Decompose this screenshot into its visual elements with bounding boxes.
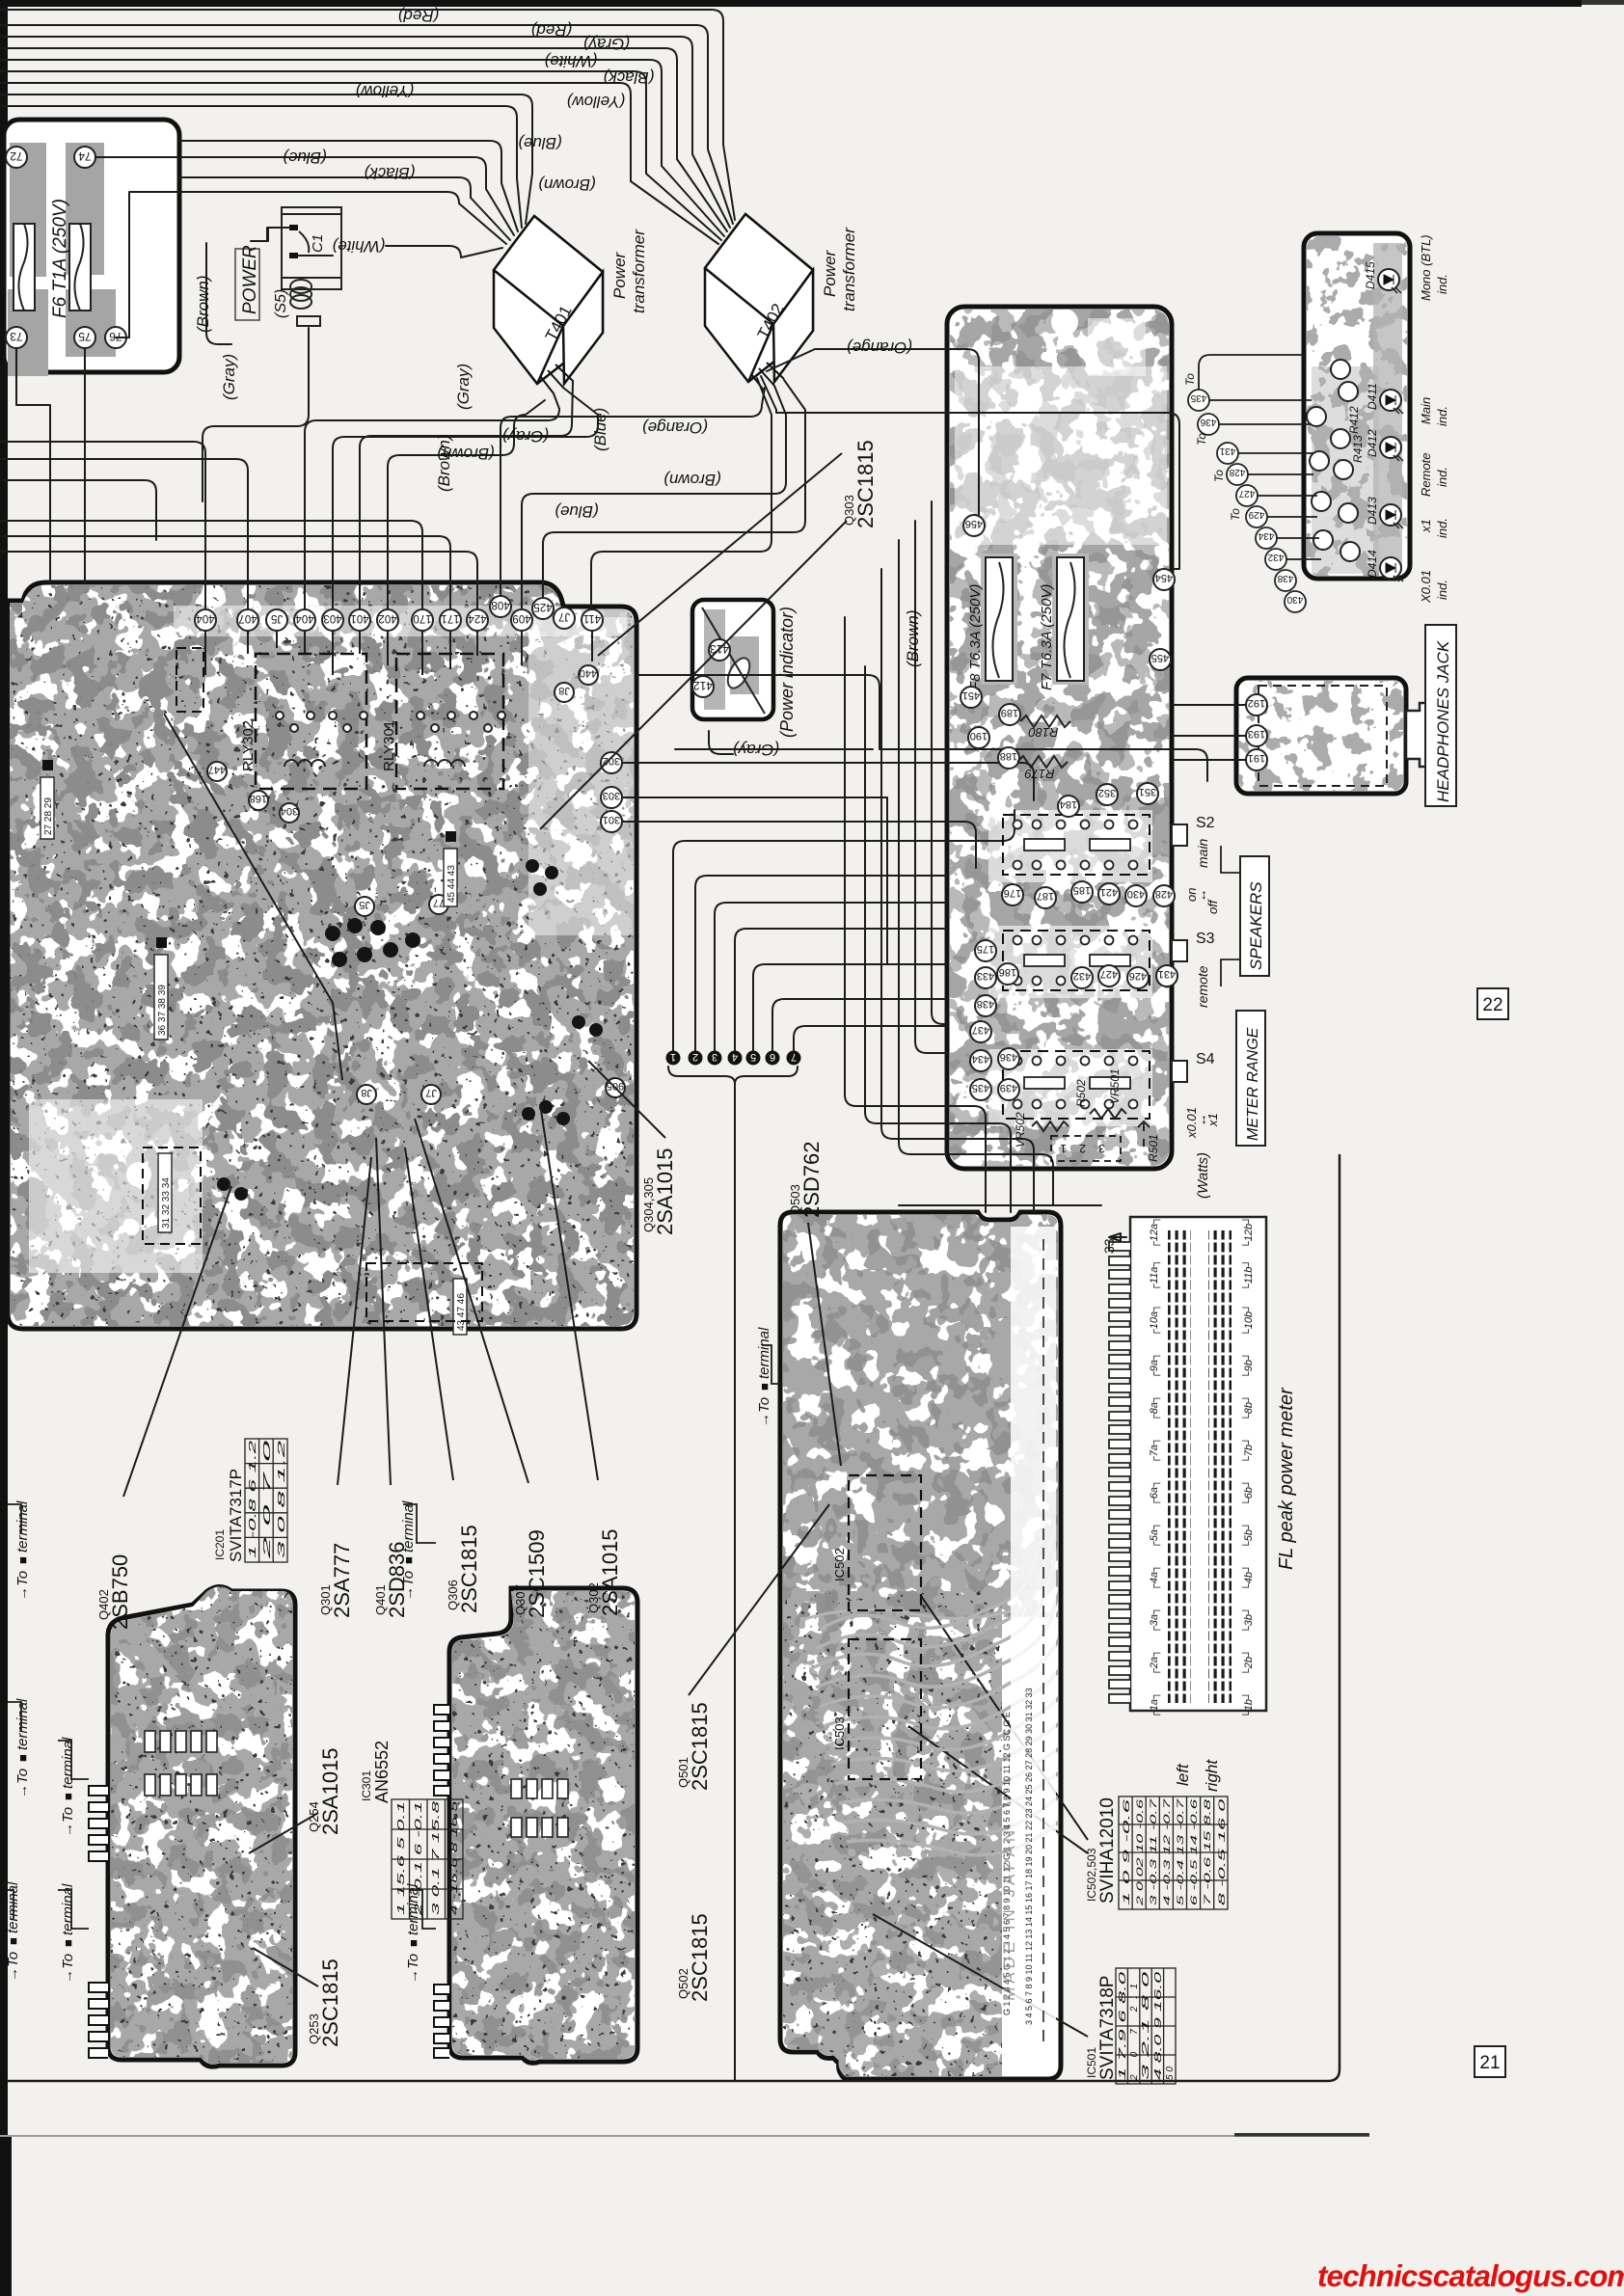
svg-text:terminal: terminal bbox=[400, 1500, 417, 1553]
svg-text:352: 352 bbox=[1098, 787, 1116, 798]
svg-text:x1: x1 bbox=[1419, 519, 1433, 533]
svg-text:2SC1815: 2SC1815 bbox=[457, 1525, 481, 1613]
svg-text:427: 427 bbox=[1238, 488, 1255, 499]
svg-text:└6b┘: └6b┘ bbox=[1241, 1479, 1255, 1506]
svg-text:73: 73 bbox=[10, 330, 23, 343]
svg-text:SPEAKERS: SPEAKERS bbox=[1247, 881, 1265, 970]
svg-text:434: 434 bbox=[972, 1053, 989, 1065]
svg-text:■: ■ bbox=[401, 1556, 416, 1564]
page edge (top) bbox=[0, 0, 1582, 7]
svg-text:190: 190 bbox=[970, 730, 988, 742]
svg-text:AN6552: AN6552 bbox=[372, 1741, 392, 1803]
jack connector at right bbox=[1406, 703, 1431, 767]
connector J101 bbox=[1051, 1136, 1121, 1161]
svg-text:RLY301: RLY301 bbox=[381, 720, 397, 771]
svg-text:(Brown): (Brown) bbox=[435, 434, 453, 492]
wire (Orange) T402 to pin 456 bbox=[767, 349, 979, 515]
svg-text:┌11a┐: ┌11a┐ bbox=[1149, 1259, 1161, 1291]
svg-text:2SA777: 2SA777 bbox=[330, 1543, 354, 1618]
svg-text:6: 6 bbox=[770, 1051, 775, 1063]
svg-text:3 -0.3 11 -0.7: 3 -0.3 11 -0.7 bbox=[1149, 1797, 1158, 1905]
transformer T401 bbox=[494, 216, 603, 384]
wire colour labels bbox=[283, 7, 912, 759]
wires to headphones jack pins 191-193 bbox=[1172, 705, 1246, 760]
svg-text:175: 175 bbox=[977, 943, 994, 955]
wire (White) C1 to T401 bbox=[298, 246, 502, 257]
svg-text:2 0.02 10 -0.6: 2 0.02 10 -0.6 bbox=[1135, 1799, 1145, 1907]
power indicator board with lamp bbox=[692, 600, 797, 738]
svg-text:(Gray): (Gray) bbox=[454, 364, 473, 410]
fuse F6 bbox=[14, 224, 35, 311]
switches S2 S3 S4 outlines bbox=[1003, 815, 1150, 1119]
LED indicator board bbox=[1304, 233, 1410, 579]
vertical wire labels bbox=[194, 275, 922, 667]
svg-text:terminal: terminal bbox=[756, 1327, 772, 1379]
svg-text:IC201: IC201 bbox=[213, 1529, 227, 1560]
svg-text:3: 3 bbox=[712, 1051, 717, 1063]
To-pin references 427-438 bbox=[1188, 390, 1306, 612]
page number 22 bbox=[1477, 988, 1508, 1019]
svg-text:(White): (White) bbox=[545, 52, 598, 70]
svg-text:└3b┘: └3b┘ bbox=[1241, 1607, 1255, 1634]
FL meter segments bbox=[1168, 1230, 1191, 1703]
svg-text:188: 188 bbox=[1000, 750, 1017, 762]
svg-text:33: 33 bbox=[1101, 1238, 1117, 1254]
svg-text:3 0.1 7 15.8: 3 0.1 7 15.8 bbox=[430, 1801, 442, 1915]
traces to FL connector bbox=[812, 1524, 1167, 1855]
svg-text:→To: →To bbox=[60, 1807, 76, 1837]
svg-text:To: To bbox=[1229, 508, 1242, 521]
svg-text:FL peak power meter: FL peak power meter bbox=[1276, 1387, 1297, 1570]
svg-text:184: 184 bbox=[1060, 798, 1077, 810]
svg-text:→To: →To bbox=[5, 1952, 21, 1982]
svg-text:F8 T6.3A (250V): F8 T6.3A (250V) bbox=[967, 584, 984, 690]
svg-text:3 0 8 1.2: 3 0 8 1.2 bbox=[277, 1440, 287, 1558]
svg-text:402: 402 bbox=[378, 612, 396, 624]
wire stubs below pins bbox=[205, 631, 592, 675]
wires from nodes 1-7 bbox=[673, 810, 1015, 1051]
svg-text:1 0 9 -0.6: 1 0 9 -0.6 bbox=[1122, 1799, 1131, 1905]
svg-text:430: 430 bbox=[1286, 594, 1303, 605]
svg-text:x0.01: x0.01 bbox=[1184, 1107, 1199, 1139]
svg-text:■: ■ bbox=[406, 1939, 420, 1947]
svg-text:(S5): (S5) bbox=[273, 289, 289, 318]
fuse (second) bbox=[69, 224, 91, 311]
svg-text:304: 304 bbox=[281, 805, 298, 817]
svg-text:(Blue): (Blue) bbox=[555, 502, 598, 521]
svg-text:J5: J5 bbox=[359, 899, 370, 910]
svg-text:MADE IN JAPAN: MADE IN JAPAN bbox=[1000, 1826, 1018, 2001]
svg-text:ind.: ind. bbox=[1435, 467, 1449, 487]
svg-text:427: 427 bbox=[1100, 968, 1118, 980]
svg-text:4 -0.3 12 -0.7: 4 -0.3 12 -0.7 bbox=[1162, 1797, 1172, 1905]
svg-text:74: 74 bbox=[78, 149, 92, 163]
svg-text:R179: R179 bbox=[1024, 767, 1054, 781]
svg-text:412: 412 bbox=[693, 679, 713, 692]
svg-text:└9b┘: └9b┘ bbox=[1241, 1352, 1255, 1379]
svg-text:439: 439 bbox=[1000, 1082, 1017, 1094]
svg-text:2: 2 bbox=[1079, 1142, 1086, 1155]
svg-text:2 0 7 0: 2 0 7 0 bbox=[262, 1439, 273, 1562]
svg-text:ind.: ind. bbox=[1435, 580, 1449, 600]
FL peak power meter display bbox=[1109, 1217, 1266, 1711]
svg-text:(Yellow): (Yellow) bbox=[356, 82, 414, 100]
svg-text:403: 403 bbox=[323, 612, 341, 624]
svg-text:7: 7 bbox=[791, 1051, 797, 1063]
svg-text:421: 421 bbox=[1100, 886, 1118, 898]
svg-text:424: 424 bbox=[468, 612, 487, 624]
svg-text:437: 437 bbox=[972, 1024, 989, 1036]
svg-text:R501: R501 bbox=[1147, 1134, 1160, 1162]
svg-text:terminal: terminal bbox=[60, 1883, 76, 1935]
svg-text:2SC1815: 2SC1815 bbox=[688, 1913, 712, 2002]
svg-text:(Brown): (Brown) bbox=[904, 609, 922, 667]
svg-text:■: ■ bbox=[6, 1937, 20, 1945]
svg-text:└1b┘: └1b┘ bbox=[1241, 1691, 1255, 1718]
svg-text:Power: Power bbox=[821, 249, 839, 297]
svg-text:F7 T6.3A (250V): F7 T6.3A (250V) bbox=[1039, 584, 1055, 690]
svg-text:5 0: 5 0 bbox=[1165, 2066, 1176, 2080]
svg-text:ind.: ind. bbox=[1435, 274, 1449, 294]
svg-text:8 -0.5 16 0: 8 -0.5 16 0 bbox=[1217, 1799, 1227, 1905]
segment labels 1a-12a bbox=[1149, 1216, 1161, 1718]
svg-text:IC501: IC501 bbox=[1085, 2047, 1098, 2078]
pins 175-456 on switch board bbox=[961, 515, 1177, 1100]
input PCB (board A) bbox=[89, 1586, 295, 2068]
svg-text:2SC1509: 2SC1509 bbox=[525, 1529, 549, 1618]
pins 301-303 and J8 bbox=[207, 665, 625, 1104]
svg-text:■: ■ bbox=[15, 1556, 30, 1564]
svg-text:440: 440 bbox=[580, 667, 597, 679]
svg-text:434: 434 bbox=[1258, 530, 1274, 541]
svg-text:2 0 7 2.1: 2 0 7 2.1 bbox=[1129, 1984, 1140, 2081]
svg-text:303: 303 bbox=[603, 790, 620, 801]
svg-text:189: 189 bbox=[1001, 707, 1018, 718]
svg-text:1 7.9 6 8.0: 1 7.9 6 8.0 bbox=[1118, 1971, 1128, 2080]
svg-text:VR502: VR502 bbox=[1014, 1112, 1027, 1148]
svg-text:185: 185 bbox=[1073, 884, 1091, 896]
svg-text:└8b┘: └8b┘ bbox=[1241, 1394, 1255, 1421]
svg-text:2SA1015: 2SA1015 bbox=[318, 1747, 342, 1835]
svg-text:301: 301 bbox=[603, 814, 620, 825]
svg-text:432: 432 bbox=[1267, 552, 1284, 562]
svg-text:451: 451 bbox=[962, 689, 980, 701]
svg-text:2: 2 bbox=[692, 1051, 698, 1063]
svg-text:3: 3 bbox=[1098, 1142, 1105, 1155]
svg-text:J5: J5 bbox=[271, 612, 283, 624]
svg-text:436: 436 bbox=[1000, 1051, 1017, 1063]
svg-text:408: 408 bbox=[491, 599, 509, 610]
IC501 voltage table bbox=[1085, 1968, 1176, 2084]
svg-text:■: ■ bbox=[757, 1383, 771, 1391]
svg-text:D415: D415 bbox=[1364, 261, 1377, 289]
svg-text:R502: R502 bbox=[1074, 1079, 1088, 1107]
svg-text:4 -16.6 8 16.5: 4 -16.6 8 16.5 bbox=[448, 1801, 460, 1915]
wires to FL driver PCB bbox=[845, 617, 986, 1212]
svg-text:┌3a┐: ┌3a┐ bbox=[1149, 1607, 1161, 1634]
svg-text:168: 168 bbox=[250, 793, 267, 804]
svg-text:(Gray): (Gray) bbox=[220, 354, 238, 400]
wavy line zone right bbox=[800, 1605, 1032, 1620]
svg-text:21: 21 bbox=[1479, 2053, 1500, 2073]
svg-text:191: 191 bbox=[1248, 752, 1265, 764]
wires to terminals bbox=[8, 1345, 780, 1929]
svg-text:72: 72 bbox=[10, 149, 23, 163]
svg-text:RLY302: RLY302 bbox=[240, 720, 257, 771]
svg-text:→To: →To bbox=[405, 1954, 421, 1984]
svg-text:ind.: ind. bbox=[1435, 518, 1449, 538]
svg-text:┌5a┐: ┌5a┐ bbox=[1149, 1522, 1161, 1549]
svg-text:2SC1815: 2SC1815 bbox=[688, 1702, 712, 1791]
svg-text:45 44 43: 45 44 43 bbox=[447, 865, 457, 903]
resistors R180 R179 VR501 VR502 R501 R502 bbox=[1017, 716, 1150, 1147]
pins 72-76 bbox=[6, 147, 126, 348]
svg-text:┌7a┐: ┌7a┐ bbox=[1149, 1437, 1161, 1464]
svg-text:351: 351 bbox=[1139, 786, 1156, 797]
svg-text:R412: R412 bbox=[1347, 406, 1361, 434]
svg-text:430: 430 bbox=[1127, 888, 1145, 900]
svg-text:main: main bbox=[1195, 838, 1210, 868]
svg-text:→To: →To bbox=[60, 1954, 76, 1984]
svg-text:411: 411 bbox=[583, 612, 601, 624]
svg-text:S4: S4 bbox=[1196, 1051, 1215, 1067]
svg-text:D412: D412 bbox=[1366, 429, 1379, 457]
svg-text:remote: remote bbox=[1195, 965, 1210, 1008]
svg-text:└5b┘: └5b┘ bbox=[1241, 1522, 1255, 1549]
svg-text:SVITA7318P: SVITA7318P bbox=[1097, 1976, 1118, 2080]
svg-text:→To: →To bbox=[400, 1571, 417, 1601]
T401 pins bbox=[540, 365, 573, 393]
svg-text:(Red): (Red) bbox=[398, 7, 440, 25]
svg-text:(Gray): (Gray) bbox=[502, 427, 549, 446]
bracket and wire from nodes 1-7 bbox=[668, 1067, 798, 1084]
svg-text:(Power indicator): (Power indicator) bbox=[777, 607, 797, 738]
svg-text:VR501: VR501 bbox=[1108, 1068, 1122, 1104]
svg-text:4: 4 bbox=[732, 1051, 738, 1063]
svg-text:43 47 46: 43 47 46 bbox=[456, 1293, 467, 1331]
svg-text:transformer: transformer bbox=[630, 229, 648, 313]
svg-text:77: 77 bbox=[433, 897, 445, 908]
svg-text:(Black): (Black) bbox=[604, 68, 655, 87]
svg-text:ind.: ind. bbox=[1435, 406, 1449, 426]
svg-text:Main: Main bbox=[1419, 397, 1433, 424]
transistors Q301-Q307 pads bbox=[217, 859, 603, 1201]
svg-text:HEADPHONES JACK: HEADPHONES JACK bbox=[1434, 640, 1452, 802]
svg-text:7 -0.6 15 8.8: 7 -0.6 15 8.8 bbox=[1203, 1799, 1212, 1905]
svg-text:22: 22 bbox=[1482, 995, 1502, 1015]
svg-text:170: 170 bbox=[413, 612, 431, 624]
svg-text:404: 404 bbox=[196, 612, 215, 624]
svg-text:2SD762: 2SD762 bbox=[799, 1141, 824, 1218]
svg-text:↕: ↕ bbox=[1201, 886, 1207, 902]
svg-text:455: 455 bbox=[1151, 652, 1169, 663]
svg-text:└12b┘: └12b┘ bbox=[1241, 1216, 1255, 1249]
connector pin number strips bbox=[41, 760, 467, 1335]
brown wire from power switch area down bbox=[251, 228, 289, 241]
svg-text:3 4 5 6 7 8 9 10 11 12 13 14 1: 3 4 5 6 7 8 9 10 11 12 13 14 15 16 17 18… bbox=[1024, 1688, 1034, 2025]
white clearance strip along top where circled numbers sit bbox=[174, 606, 627, 636]
svg-text:SVITA7317P: SVITA7317P bbox=[227, 1469, 245, 1562]
IC301 voltage table bbox=[360, 1741, 463, 1919]
wires to LED board bbox=[1199, 355, 1321, 559]
relays RLY302 RLY301 bbox=[256, 654, 503, 789]
SPEAKERS label bbox=[1221, 846, 1269, 986]
svg-text:5 -0.4 13 -0.7: 5 -0.4 13 -0.7 bbox=[1176, 1797, 1185, 1905]
svg-text:436: 436 bbox=[1200, 417, 1216, 427]
svg-text:S2: S2 bbox=[1196, 815, 1215, 831]
svg-text:To: To bbox=[1195, 433, 1208, 446]
svg-text:┌1a┐: ┌1a┐ bbox=[1149, 1691, 1161, 1718]
svg-text:4 8.0 9 16.0: 4 8.0 9 16.0 bbox=[1153, 1971, 1164, 2080]
svg-text:■: ■ bbox=[61, 1793, 75, 1800]
svg-text:193: 193 bbox=[1248, 728, 1265, 740]
svg-text:(Black): (Black) bbox=[365, 164, 416, 182]
leader lines to Q-labels bbox=[123, 453, 1088, 2037]
svg-text:435: 435 bbox=[1190, 392, 1206, 403]
svg-text:terminal: terminal bbox=[14, 1698, 31, 1750]
switch contacts bbox=[1014, 821, 1138, 1109]
svg-text:┌2a┐: ┌2a┐ bbox=[1149, 1649, 1161, 1676]
svg-text:Mono (BTL): Mono (BTL) bbox=[1419, 234, 1433, 301]
svg-text:1: 1 bbox=[670, 1051, 676, 1063]
svg-text:433: 433 bbox=[977, 970, 994, 982]
svg-text:C1: C1 bbox=[310, 234, 326, 253]
svg-text:■: ■ bbox=[61, 1939, 75, 1947]
IC201 voltage table bbox=[213, 1439, 287, 1562]
svg-text:31 32 33 34: 31 32 33 34 bbox=[161, 1177, 172, 1229]
svg-text:Remote: Remote bbox=[1419, 452, 1433, 497]
svg-text:→To: →To bbox=[14, 1571, 31, 1601]
svg-text:transformer: transformer bbox=[840, 227, 858, 311]
svg-text:27 28 29: 27 28 29 bbox=[43, 797, 54, 835]
svg-text:IC502,503: IC502,503 bbox=[1085, 1848, 1098, 1902]
svg-text:5: 5 bbox=[750, 1051, 756, 1063]
svg-text:456: 456 bbox=[965, 518, 983, 529]
FL driver pin column clearance bbox=[1011, 1227, 1056, 2046]
page number 21 bbox=[1475, 2046, 1505, 2077]
svg-text:R413: R413 bbox=[1351, 435, 1365, 463]
wires from left edge bbox=[0, 442, 205, 609]
svg-text:x1: x1 bbox=[1205, 1113, 1220, 1127]
svg-text:75: 75 bbox=[78, 330, 92, 343]
wires from T402 pins bbox=[501, 388, 765, 607]
svg-text:2 -0.1 6 -0.1: 2 -0.1 6 -0.1 bbox=[413, 1801, 424, 1917]
svg-text:┌6a┐: ┌6a┐ bbox=[1149, 1479, 1161, 1506]
connector pins on left bbox=[1109, 1242, 1130, 1703]
FL driver pin row 1-33 bbox=[1042, 1239, 1044, 2044]
svg-text:1 -0.8 6 1.2: 1 -0.8 6 1.2 bbox=[248, 1440, 258, 1558]
svg-text:432: 432 bbox=[1073, 970, 1091, 982]
svg-text:on: on bbox=[1184, 888, 1199, 902]
wires T401 pins to board pins bbox=[305, 393, 559, 609]
svg-text:431: 431 bbox=[1158, 968, 1176, 980]
pins 404-411 on main PCB bbox=[195, 596, 603, 631]
power switch S5 with capacitor C1 bbox=[235, 207, 341, 326]
svg-text:SVIHA12010: SVIHA12010 bbox=[1097, 1797, 1118, 1904]
svg-text:└7b┘: └7b┘ bbox=[1241, 1437, 1255, 1464]
svg-text:D411: D411 bbox=[1366, 383, 1379, 410]
terminal reference labels bbox=[14, 1500, 31, 1601]
switch board (speakers/meter) bbox=[947, 307, 1172, 1169]
fuses F8 and F7 bbox=[967, 554, 1089, 690]
left 2/3 heavy texture bbox=[780, 1212, 1062, 1617]
svg-text:2SA1015: 2SA1015 bbox=[653, 1148, 677, 1235]
relay contacts bbox=[276, 712, 505, 732]
svg-text:Power: Power bbox=[610, 251, 629, 299]
switch levers S2 S3 S4 bbox=[1172, 815, 1220, 1139]
svg-text:IC503: IC503 bbox=[832, 1716, 847, 1750]
svg-text:└11b┘: └11b┘ bbox=[1241, 1259, 1255, 1291]
svg-text:(Orange): (Orange) bbox=[642, 419, 708, 437]
svg-text:2SC1815: 2SC1815 bbox=[318, 1958, 342, 2047]
svg-text:D414: D414 bbox=[1366, 550, 1379, 578]
svg-text:407: 407 bbox=[238, 612, 257, 624]
svg-text:6 -0.5 14 -0.6: 6 -0.5 14 -0.6 bbox=[1189, 1799, 1199, 1905]
IC502 IC503 bbox=[849, 1475, 921, 1779]
svg-text:171: 171 bbox=[441, 612, 459, 624]
svg-text:■: ■ bbox=[15, 1754, 30, 1762]
svg-text:J8: J8 bbox=[361, 1087, 372, 1098]
svg-text:J8: J8 bbox=[558, 685, 570, 696]
svg-text:187: 187 bbox=[1037, 890, 1054, 902]
svg-text:J7: J7 bbox=[558, 610, 570, 622]
FL meter driver PCB with IC501-503 bbox=[780, 1212, 1062, 2083]
svg-text:176: 176 bbox=[1004, 887, 1021, 899]
svg-text:36 37 38 39: 36 37 38 39 bbox=[157, 985, 168, 1036]
svg-text:429: 429 bbox=[1248, 509, 1264, 520]
svg-text:2SA1015: 2SA1015 bbox=[598, 1528, 622, 1616]
svg-text:(Red): (Red) bbox=[531, 21, 573, 40]
svg-text:186: 186 bbox=[999, 966, 1016, 978]
svg-text:right: right bbox=[1203, 1759, 1221, 1792]
main amplifier PCB bbox=[8, 582, 636, 1329]
svg-text:1: 1 bbox=[1060, 1142, 1067, 1155]
svg-text:(Blue): (Blue) bbox=[591, 408, 609, 451]
svg-text:(Brown): (Brown) bbox=[538, 176, 596, 194]
svg-text:2SC1815: 2SC1815 bbox=[853, 440, 878, 528]
svg-text:425: 425 bbox=[533, 601, 552, 612]
IC204 and IC301 pin pads bbox=[145, 1731, 568, 1837]
svg-text:terminal: terminal bbox=[60, 1737, 76, 1789]
indicator labels bbox=[1419, 234, 1449, 604]
svg-text:438: 438 bbox=[977, 998, 994, 1010]
svg-text:431: 431 bbox=[1219, 446, 1235, 456]
svg-text:1 15.6 5 0.1: 1 15.6 5 0.1 bbox=[395, 1801, 407, 1915]
(Brown) wire from S5 coil going down-left bbox=[203, 328, 309, 501]
svg-text:(Gray): (Gray) bbox=[733, 741, 779, 759]
svg-text:(Blue): (Blue) bbox=[283, 149, 326, 167]
wires pins 301-303 to switch board bbox=[636, 675, 897, 749]
transistor labels Q402 Q301 Q401 Q306 Q307 Q302 Q304 Q305 Q503 Q303 Q501 Q502 Q253 Q254 bbox=[96, 495, 856, 2044]
svg-text:428: 428 bbox=[1229, 467, 1245, 477]
svg-text:IC301: IC301 bbox=[360, 1770, 373, 1801]
svg-text:To: To bbox=[1183, 373, 1197, 386]
svg-text:left: left bbox=[1174, 1763, 1192, 1786]
svg-text:(Gray): (Gray) bbox=[583, 35, 630, 53]
svg-text:D413: D413 bbox=[1366, 497, 1379, 525]
tone PCB (board B) bbox=[434, 1586, 638, 2065]
nodes 1-7 bbox=[666, 1051, 801, 1066]
page edge (left) bbox=[0, 0, 8, 2136]
svg-text:426: 426 bbox=[1129, 970, 1147, 982]
svg-text:X0.01: X0.01 bbox=[1419, 570, 1433, 604]
svg-text:┌4a┐: ┌4a┐ bbox=[1149, 1564, 1161, 1591]
transformer T402 bbox=[705, 214, 813, 382]
svg-text:(Watts): (Watts) bbox=[1195, 1152, 1211, 1199]
svg-text:S3: S3 bbox=[1196, 931, 1215, 947]
svg-text:off: off bbox=[1205, 899, 1220, 914]
svg-text:409: 409 bbox=[512, 612, 530, 624]
